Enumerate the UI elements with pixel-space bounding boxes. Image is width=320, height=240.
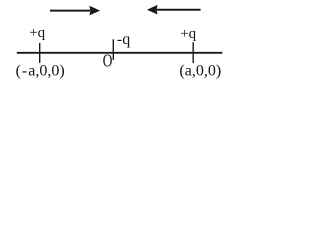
tick at x=-a xyxy=(39,43,41,63)
tick at x=+a xyxy=(192,42,194,63)
dipole moment arrow p1 (left, pointing right) xyxy=(50,6,100,16)
svg-text:(a,0,0): (a,0,0) xyxy=(179,62,221,79)
svg-text:+q: +q xyxy=(29,25,45,41)
svg-text:-q: -q xyxy=(117,31,130,48)
dipole moment arrow p2 (right, pointing left) xyxy=(147,5,201,15)
svg-text:+q: +q xyxy=(180,26,196,42)
svg-text:O: O xyxy=(103,51,113,71)
svg-text:(-a,0,0): (-a,0,0) xyxy=(16,62,65,79)
tick at origin xyxy=(112,39,114,60)
x-axis line xyxy=(17,52,223,54)
